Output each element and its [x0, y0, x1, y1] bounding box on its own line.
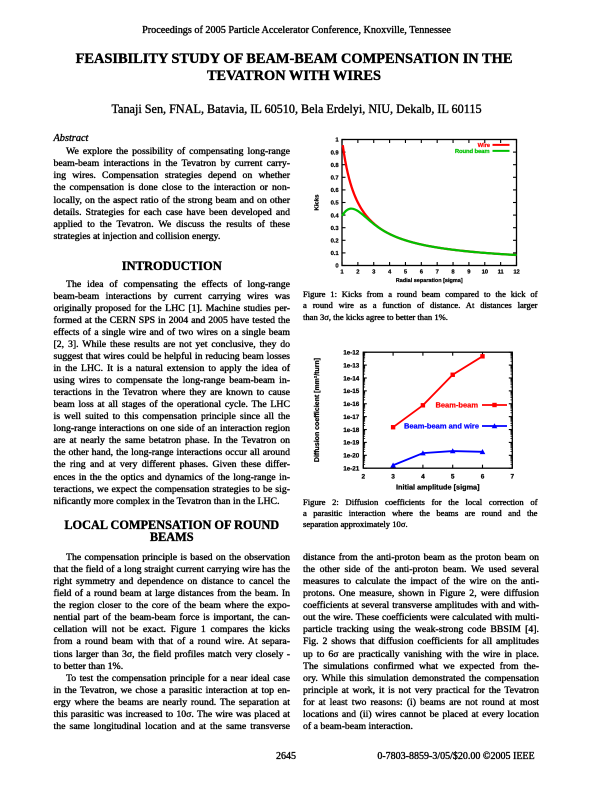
svg-text:Beam-beam and wire: Beam-beam and wire	[404, 422, 479, 431]
svg-text:0.6: 0.6	[331, 187, 340, 194]
svg-text:5: 5	[451, 474, 455, 481]
svg-text:Kicks: Kicks	[313, 194, 320, 211]
svg-text:0.7: 0.7	[331, 175, 340, 182]
figure 2 beam-beam square markers	[391, 425, 395, 429]
svg-text:2: 2	[361, 474, 365, 481]
svg-text:1e-12: 1e-12	[343, 350, 360, 357]
svg-text:1: 1	[335, 137, 339, 144]
svg-text:1e-18: 1e-18	[343, 427, 360, 434]
svg-text:12: 12	[513, 269, 520, 276]
svg-text:Diffusion coefficient [mm²/tur: Diffusion coefficient [mm²/turn]	[313, 358, 321, 462]
svg-text:7: 7	[510, 474, 514, 481]
svg-text:9: 9	[467, 269, 471, 276]
introduction body	[54, 279, 291, 508]
svg-text:Beam-beam: Beam-beam	[435, 401, 478, 410]
figure 1 plot	[310, 130, 545, 292]
right column body	[303, 552, 539, 733]
svg-text:8: 8	[451, 269, 455, 276]
svg-text:1e-20: 1e-20	[343, 453, 360, 460]
copyright footer	[356, 751, 556, 762]
figure 1 y tick labels	[331, 137, 340, 270]
figure 2 minor log tick marks	[363, 353, 512, 465]
svg-text:3: 3	[391, 474, 395, 481]
svg-text:1e-13: 1e-13	[343, 362, 360, 369]
svg-text:0.8: 0.8	[331, 162, 340, 169]
figure 1 x tick labels	[340, 269, 520, 276]
figure 2 caption	[303, 497, 538, 531]
author line	[0, 102, 593, 117]
figure 2 beam-beam and wire triangle markers	[390, 462, 396, 467]
svg-text:1e-14: 1e-14	[343, 375, 360, 382]
svg-text:0.4: 0.4	[331, 212, 340, 219]
svg-text:1e-21: 1e-21	[343, 466, 360, 473]
local compensation paragraph 2	[54, 673, 291, 733]
svg-text:0.2: 0.2	[331, 238, 340, 245]
figure 1 round beam curve (green)	[342, 209, 517, 255]
figure 2 x tick labels	[361, 474, 514, 481]
figure 1 tick marks	[342, 140, 517, 266]
svg-text:0.1: 0.1	[331, 250, 340, 257]
figure 2 axes box	[363, 352, 512, 468]
figure 1 axes box	[342, 140, 517, 266]
abstract body	[54, 146, 291, 243]
figure 2 y tick labels	[343, 350, 360, 473]
svg-text:10: 10	[482, 269, 489, 276]
figure 2 beam-beam polyline (red)	[393, 356, 482, 427]
svg-text:1e-19: 1e-19	[343, 440, 360, 447]
svg-text:2: 2	[356, 269, 360, 276]
figure 1 caption	[303, 289, 538, 323]
svg-text:Round beam: Round beam	[455, 148, 490, 155]
svg-text:Radial separation [sigma]: Radial separation [sigma]	[396, 278, 463, 284]
svg-text:1: 1	[340, 269, 344, 276]
svg-text:0.5: 0.5	[331, 200, 340, 207]
svg-text:4: 4	[421, 474, 425, 481]
svg-text:4: 4	[388, 269, 392, 276]
svg-text:0.9: 0.9	[331, 149, 340, 156]
figure 1 wire curve (red)	[343, 145, 517, 255]
figure 2 major tick marks	[363, 352, 512, 468]
paper title	[0, 51, 588, 86]
svg-text:Initial amplitude [sigma]: Initial amplitude [sigma]	[396, 483, 480, 492]
svg-text:0: 0	[335, 263, 339, 270]
local compensation paragraph 1	[54, 552, 291, 673]
svg-text:1e-15: 1e-15	[343, 388, 360, 395]
svg-text:11: 11	[498, 269, 505, 276]
svg-text:1e-16: 1e-16	[343, 401, 360, 408]
page number footer	[266, 751, 306, 762]
svg-text:Wire: Wire	[478, 142, 491, 149]
svg-text:5: 5	[404, 269, 408, 276]
svg-text:6: 6	[420, 269, 424, 276]
svg-text:6: 6	[481, 474, 485, 481]
figure 2 beam-beam and wire polyline (blue)	[393, 451, 482, 465]
INTRODUCTION heading	[54, 259, 291, 274]
svg-text:3: 3	[372, 269, 376, 276]
figure 2 plot	[310, 345, 545, 495]
svg-text:7: 7	[436, 269, 440, 276]
conference header	[0, 25, 593, 36]
Abstract heading	[54, 133, 89, 144]
svg-text:0.3: 0.3	[331, 225, 340, 232]
LOCAL COMPENSATION OF ROUND BEAMS heading	[54, 519, 291, 544]
svg-text:1e-17: 1e-17	[343, 414, 360, 421]
